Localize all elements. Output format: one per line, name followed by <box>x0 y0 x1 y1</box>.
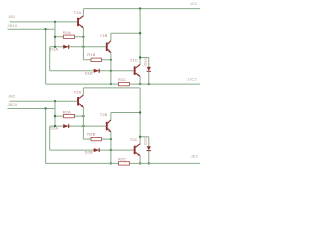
transistor T2C <box>134 146 136 155</box>
wire: T2B collector up and over to T2C drop <box>110 113 112 120</box>
svg-text:JE2: JE2 <box>191 153 199 158</box>
junction D1C top wire on T1C collector drop <box>139 56 141 58</box>
svg-text:D2C: D2C <box>143 136 148 144</box>
junction D2B row at T2B emitter vertical <box>110 149 112 151</box>
wire: D1A row drop down to D1B row <box>49 47 51 71</box>
resistor R2C body (series in rail) <box>119 162 130 165</box>
junction T2B collector wire on drop <box>139 111 141 113</box>
resistor R1C body (series in rail) <box>119 82 130 85</box>
resistor R2B leads <box>83 138 111 140</box>
wire: T1B emitter down to emitter rail <box>110 53 112 85</box>
transistor T2B <box>106 122 108 131</box>
svg-text:JC1: JC1 <box>190 1 198 6</box>
svg-text:R1A: R1A <box>63 30 71 35</box>
diode D2B <box>94 148 99 152</box>
transistor T1B <box>106 43 108 52</box>
svg-text:D2A: D2A <box>50 126 58 131</box>
junction D1B row at T1B emitter vertical <box>110 70 112 72</box>
net JB1: input wire <box>10 21 78 23</box>
wire: D1A row, continues to T1B base <box>50 46 106 48</box>
svg-text:J1C2: J1C2 <box>187 77 197 82</box>
junction T1C emitter / emitter rail <box>139 83 141 85</box>
junction on JB2 wire <box>54 100 56 102</box>
wire: JB1X drop down to emitter rail <box>45 29 47 84</box>
junction D1A wire at base-node drop <box>54 46 56 48</box>
junction on JB1 wire <box>54 21 56 23</box>
junction R2A right <box>82 115 84 117</box>
junction R2B right at T2B emitter vertical <box>110 138 112 140</box>
collector rail C2 <box>83 87 140 89</box>
junction T1B collector wire on drop <box>139 32 141 34</box>
svg-text:R2B: R2B <box>87 132 95 137</box>
junction on JB1X wire at left drop <box>44 28 46 30</box>
net JB2X: input wire <box>8 108 56 110</box>
resistor R1B body <box>91 58 102 61</box>
resistor R1A body <box>64 35 75 38</box>
junction D1C / emitter rail <box>148 83 150 85</box>
wire: D2C bottom to emitter rail <box>148 151 150 164</box>
wire: D2C top connection <box>140 136 149 138</box>
diode D2C <box>147 146 151 150</box>
wire: D1C bottom to emitter rail <box>148 71 150 84</box>
wire: JB2X drop down to emitter rail <box>45 109 47 164</box>
junction T2B emitter / emitter rail <box>110 162 112 164</box>
wire: T2A emitter down to R2B <box>82 107 84 139</box>
junction D1A wire at emitter vertical of T1A <box>82 46 84 48</box>
svg-text:D1B: D1B <box>85 70 93 75</box>
svg-text:T1B: T1B <box>100 33 108 38</box>
wire: T2A collector up to collector rail <box>82 88 84 95</box>
wire: T1C emitter down to emitter rail <box>139 77 141 85</box>
junction T2C emitter / emitter rail <box>139 162 141 164</box>
wire: base node drop to R1A / D1A <box>54 22 56 47</box>
junction D2C / emitter rail <box>148 162 150 164</box>
svg-text:JB1X: JB1X <box>8 23 18 28</box>
svg-text:JB2X: JB2X <box>8 102 18 107</box>
junction R1A left <box>54 36 56 38</box>
wire: T2C emitter down to emitter rail <box>139 156 141 164</box>
wire: T1B collector up and over to T1C drop <box>110 33 112 40</box>
svg-text:D1C: D1C <box>143 57 148 65</box>
junction D2A wire at base-node drop <box>54 125 56 127</box>
resistor R2B body <box>91 137 102 140</box>
junction collector rail / drop to T1C <box>139 7 141 9</box>
resistor R1A leads <box>55 36 83 38</box>
wire: D2B row, to T2C base <box>50 149 134 151</box>
wire: collector rail drop to T1C collector <box>139 9 141 65</box>
collector rail C1 <box>83 8 200 10</box>
emitter rail <box>46 83 200 85</box>
junction R2A left <box>54 115 56 117</box>
svg-text:T1A: T1A <box>74 10 82 15</box>
junction R1B right at T1B emitter vertical <box>110 59 112 61</box>
junction T1B emitter / emitter rail <box>110 83 112 85</box>
svg-text:R1C: R1C <box>118 77 126 82</box>
wire: collector rail drop to T2C collector <box>139 88 141 144</box>
wire: D1C top connection <box>140 57 149 59</box>
resistor R1B leads <box>83 59 111 61</box>
svg-text:D1A: D1A <box>50 46 58 51</box>
diode D2A <box>63 124 68 128</box>
net JB2: input wire <box>10 100 78 102</box>
junction D2C top wire on T2C collector drop <box>139 136 141 138</box>
junction R1A right <box>82 36 84 38</box>
transistor T2A <box>77 97 79 106</box>
wire: D2A row drop down to D2B row <box>49 126 51 150</box>
emitter rail <box>46 162 200 164</box>
svg-text:T2B: T2B <box>100 112 108 117</box>
svg-text:D2B: D2B <box>85 150 93 155</box>
wire: D2A row, continues to T2B base <box>50 125 106 127</box>
svg-text:T1C: T1C <box>130 58 138 63</box>
net JB1X: input wire <box>8 28 56 30</box>
diode D1A <box>63 45 68 49</box>
diode D1C <box>147 67 151 71</box>
svg-text:T2C: T2C <box>130 137 138 142</box>
svg-text:R1B: R1B <box>87 52 95 57</box>
resistor R2A body <box>64 114 75 117</box>
junction on JB2X wire at left drop <box>44 107 46 109</box>
svg-text:JB1: JB1 <box>8 14 16 19</box>
wire: D1B row, to T1C base <box>50 70 134 72</box>
svg-text:T2A: T2A <box>74 89 82 94</box>
svg-text:R2C: R2C <box>118 157 126 162</box>
transistor T1A <box>77 18 79 27</box>
wire: T1A collector up to collector rail <box>82 9 84 16</box>
svg-text:R2A: R2A <box>63 110 71 115</box>
junction D2A wire at emitter vertical of T2A <box>82 125 84 127</box>
svg-text:JB2: JB2 <box>8 94 16 99</box>
wire: T2B emitter down to emitter rail <box>110 132 112 164</box>
resistor R2A leads <box>55 115 83 117</box>
transistor T1C <box>134 66 136 75</box>
diode D1B <box>94 69 99 73</box>
wire: base node drop to R2A / D2A <box>54 101 56 126</box>
wire: T1A emitter down to R1B <box>82 28 84 60</box>
